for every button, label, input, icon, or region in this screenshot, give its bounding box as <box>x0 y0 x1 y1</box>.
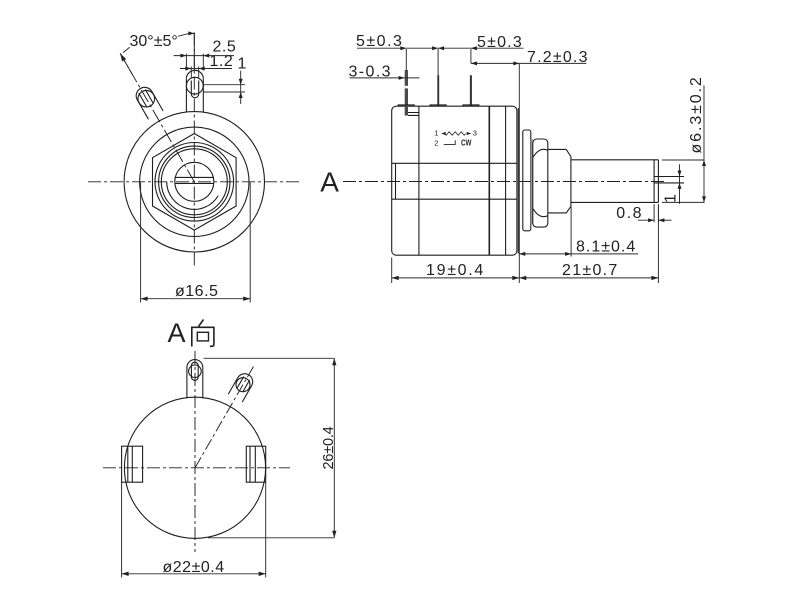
dimension 8.1±0.4 arrows <box>519 252 571 256</box>
dimension 1 slot text <box>663 194 680 203</box>
side view nut rear facet <box>533 139 548 227</box>
dimension 19/21 extensions <box>392 205 659 283</box>
dimension 1.2 line <box>180 68 232 70</box>
svg-text:1: 1 <box>434 129 438 138</box>
side view mounting plate seam <box>505 106 507 255</box>
front view thread circle inner <box>159 146 230 217</box>
dimension 1 slot arrows <box>678 171 682 189</box>
dimension ø22±0.4 extensions <box>122 482 266 577</box>
dimension 1.2 extension lines <box>191 67 198 78</box>
dimension 7.2±0.3 text <box>527 49 589 66</box>
dimension 19±0.4 text <box>426 262 485 279</box>
side view washer <box>523 130 531 231</box>
dimension ø22±0.4 line <box>122 573 266 575</box>
side view shaft slot <box>654 177 684 183</box>
dimension 0.8 text <box>616 205 643 222</box>
front view angled lug slot <box>139 90 153 107</box>
front view angled lug body <box>136 87 163 119</box>
A-view 30deg axis centerline <box>195 365 255 468</box>
dimension 0.8 line <box>638 219 672 221</box>
front view inner arc <box>167 182 219 210</box>
front view body outer circle <box>124 112 264 252</box>
front view shaft slot <box>175 177 215 183</box>
dimension ø22±0.4 arrows <box>122 572 266 576</box>
dimension ø6.3±0.2 text <box>688 75 705 153</box>
dimension 19/21 arrows <box>392 276 659 280</box>
dimension 5 lines <box>357 47 524 49</box>
dimension 26±0.4 arrows <box>332 358 336 538</box>
front view angled lug hole <box>138 90 155 107</box>
dimension ø16.5 extension lines <box>141 183 251 303</box>
side view body seam right <box>488 106 490 255</box>
front view thread circle outer <box>155 143 234 222</box>
A-view angled lug slot <box>237 377 250 393</box>
dimension 26±0.4 text <box>321 426 337 469</box>
dimension 1.2 text <box>210 53 234 70</box>
terminal pin 1 (left) <box>405 70 408 116</box>
A-view body circle <box>124 397 265 538</box>
front view 30deg leader arrow <box>120 53 126 61</box>
side view body outline <box>392 106 517 255</box>
vertical ray solid segment <box>193 33 195 71</box>
A-view angled lug body <box>228 374 252 402</box>
terminal pin 1 anchor <box>408 113 419 116</box>
svg-text:3: 3 <box>473 128 477 137</box>
side view shaft <box>571 160 659 203</box>
dimension 1.2 arrows <box>185 67 204 71</box>
view direction label A <box>320 167 339 198</box>
dimension 26±0.4 extensions <box>204 358 335 538</box>
dimension 1 extension lines <box>203 85 245 92</box>
svg-text:8.1±0.4: 8.1±0.4 <box>576 239 636 256</box>
svg-text:1.2: 1.2 <box>210 53 234 70</box>
front view vertical centerline <box>193 33 195 269</box>
dimension 1 slot line <box>679 164 681 204</box>
svg-text:30°±5°: 30°±5° <box>130 33 178 50</box>
dimension 7.2 extension <box>518 63 520 283</box>
A-view vertical centerline <box>194 351 196 552</box>
A-view left tab <box>122 446 143 482</box>
schematic pin label 2 <box>434 138 438 147</box>
dimension 5 extension pin1 <box>405 49 407 70</box>
dimension 5 extension pin3 <box>470 49 472 63</box>
front view top lug body <box>186 70 203 112</box>
A-view horizontal centerline <box>103 467 290 469</box>
svg-text:21±0.7: 21±0.7 <box>562 262 619 279</box>
dimension ø16.5 line <box>141 298 251 300</box>
dimension 30±5 text <box>130 33 178 50</box>
schematic resistor element <box>441 132 471 136</box>
terminal pin 3 (right) <box>470 75 472 106</box>
front view horizontal centerline <box>88 181 300 183</box>
dimension 3-0.3 arrow <box>399 76 405 80</box>
dimension 0.8 extensions <box>654 204 658 222</box>
dimension 30±5 arrow at vertical ray <box>188 31 194 35</box>
dimension 2.5 text <box>213 39 237 56</box>
dimension 7.2 arrows <box>471 61 519 65</box>
dimension ø6.3±0.2 extensions <box>662 160 705 202</box>
front view shaft circle <box>175 162 214 201</box>
dimension 21±0.7 text <box>562 262 619 279</box>
side view nut chamfer arcs <box>533 149 548 216</box>
front view top lug slot <box>191 81 198 98</box>
side view mounting plate face <box>517 108 519 254</box>
dimension 1 text <box>238 56 247 73</box>
schematic wiper <box>444 140 455 144</box>
svg-text:5±0.3: 5±0.3 <box>356 33 403 50</box>
terminal pin 2 (middle) <box>437 75 439 106</box>
dimension 0.8 arrows <box>648 218 664 222</box>
A-view top lug hole <box>189 365 202 378</box>
dimension 2.5 extension lines <box>186 54 203 71</box>
svg-text:2: 2 <box>434 138 438 147</box>
dimension 19/21 line <box>392 277 659 279</box>
dimension 3-0.3 text <box>349 64 392 81</box>
dimension 2.5 line <box>174 55 234 57</box>
side view centerline <box>343 181 666 183</box>
A-view angled lug hole <box>236 378 250 392</box>
dimension ø6.3±0.2 arrows <box>702 160 706 202</box>
side view pin bosses <box>398 105 479 106</box>
dimension 5±0.3 left text <box>356 33 403 50</box>
svg-text:ø16.5: ø16.5 <box>175 283 218 300</box>
dimension ø22±0.4 text <box>163 559 225 576</box>
svg-text:ø22±0.4: ø22±0.4 <box>163 559 225 576</box>
side view nut front facet <box>548 149 571 213</box>
angled ray solid segment <box>120 53 133 75</box>
svg-text:1: 1 <box>663 194 680 203</box>
dimension 5±0.3 right text <box>477 34 523 51</box>
schematic pin label 3 <box>473 128 477 137</box>
side view shaft channel <box>392 163 517 199</box>
svg-text:CW: CW <box>461 138 472 148</box>
dimension 7.2±0.3 line <box>471 62 586 64</box>
front view top lug hole <box>186 77 203 94</box>
dimension 1 line <box>240 71 242 104</box>
front view 30deg lug axis centerline <box>120 53 194 181</box>
svg-text:26±0.4: 26±0.4 <box>321 426 337 469</box>
side view body seam left <box>418 106 420 255</box>
dimension 26±0.4 line <box>333 358 335 538</box>
A-view label <box>168 318 186 348</box>
dimension ø16.5 text <box>175 283 218 300</box>
dimension 5 extension pin2 <box>437 49 439 75</box>
dimension ø6.3±0.2 line <box>703 86 705 203</box>
schematic pin label 1 <box>434 129 438 138</box>
svg-text:A: A <box>320 167 339 198</box>
svg-text:A: A <box>168 318 186 348</box>
dimension ø16.5 arrows <box>141 297 251 301</box>
dimension 30±5 leader <box>123 33 194 52</box>
dimension 1 arrows <box>239 79 243 98</box>
A-view label hanzi 向 <box>192 320 214 347</box>
svg-text:0.8: 0.8 <box>616 205 643 222</box>
dimension 8.1±0.4 extension <box>570 207 572 257</box>
front view bushing base circle (ø16.5) <box>140 127 249 236</box>
svg-text:ø6.3±0.2: ø6.3±0.2 <box>688 75 705 153</box>
svg-text:19±0.4: 19±0.4 <box>426 262 485 279</box>
side view thread strip <box>531 139 533 224</box>
A-view right tab <box>246 446 265 482</box>
dimension 8.1±0.4 text <box>576 239 636 256</box>
dimension 5 arrows <box>400 46 477 50</box>
side view shaft slot bottom line <box>653 160 655 203</box>
dimension 2.5 arrows <box>180 54 209 58</box>
A-view top lug slot <box>191 362 198 380</box>
dimension 3-0.3 line <box>350 77 420 79</box>
schematic CW label <box>461 138 472 148</box>
dimension 8.1±0.4 line <box>519 253 638 255</box>
front view hex nut <box>153 134 237 231</box>
svg-text:1: 1 <box>238 56 247 73</box>
A-view top lug body <box>187 360 203 399</box>
front view thread relief arc <box>161 149 227 215</box>
